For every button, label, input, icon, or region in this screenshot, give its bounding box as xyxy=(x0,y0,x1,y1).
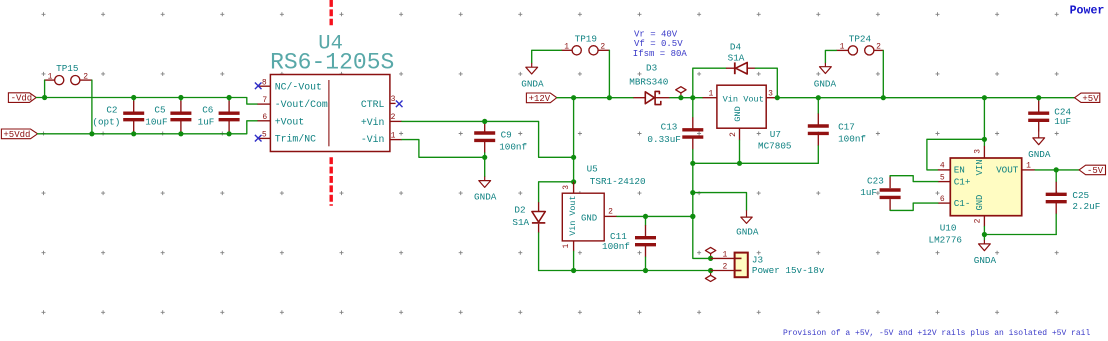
svg-text:GND: GND xyxy=(581,213,597,223)
svg-text:C2: C2 xyxy=(106,104,117,115)
svg-text:GNDA: GNDA xyxy=(1028,149,1051,160)
wire U7 GND to ground rail xyxy=(739,140,741,163)
svg-text:C5: C5 xyxy=(154,104,165,115)
power symbol GNDA below U10 xyxy=(983,235,985,241)
U5 pin 1 xyxy=(573,241,575,251)
J3 pin 2 xyxy=(711,270,735,272)
svg-text:GNDA: GNDA xyxy=(736,227,759,238)
svg-text:100nf: 100nf xyxy=(838,134,866,145)
svg-text:C6: C6 xyxy=(202,104,213,115)
svg-text:8: 8 xyxy=(262,78,267,87)
junction xyxy=(643,214,648,219)
power symbol GNDA below TP24 xyxy=(824,63,826,67)
svg-text:2: 2 xyxy=(391,113,396,122)
svg-text:U7: U7 xyxy=(770,129,781,140)
power symbol GNDA middle xyxy=(746,210,748,217)
wire TP19 pin2 to rail xyxy=(608,50,610,97)
svg-text:U10: U10 xyxy=(940,223,957,234)
svg-text:Power: Power xyxy=(1070,5,1105,18)
svg-text:D3: D3 xyxy=(646,62,657,73)
U4 pin 8 xyxy=(258,85,271,87)
U4 pin 7 xyxy=(258,103,271,105)
svg-text:D2: D2 xyxy=(514,205,525,216)
svg-text:7: 7 xyxy=(262,96,267,105)
junction xyxy=(690,161,695,166)
svg-text:+Vout: +Vout xyxy=(275,116,304,127)
svg-text:3: 3 xyxy=(562,185,571,190)
svg-text:Vf = 0.5V: Vf = 0.5V xyxy=(634,39,683,49)
svg-text:2: 2 xyxy=(722,262,727,271)
svg-text:LM2776: LM2776 xyxy=(929,234,962,245)
svg-text:-Vout/Com: -Vout/Com xyxy=(275,99,328,110)
svg-text:-Vdd: -Vdd xyxy=(11,94,33,104)
svg-text:Vr = 40V: Vr = 40V xyxy=(634,30,678,40)
wire EN loop xyxy=(927,139,985,170)
hierarchical label -5V xyxy=(1079,165,1105,175)
junction xyxy=(690,214,695,219)
power symbol GNDA below TP19 xyxy=(531,63,533,67)
junction xyxy=(131,131,136,136)
U7 pin 3 Vout xyxy=(766,97,777,99)
red dashed divider line xyxy=(330,0,333,206)
wire +12V to rail xyxy=(557,97,574,99)
svg-text:Ifsm = 80A: Ifsm = 80A xyxy=(633,49,688,59)
wire ground vertical to J3 xyxy=(693,163,711,258)
svg-text:J3: J3 xyxy=(752,254,763,265)
bottom rail wire xyxy=(539,270,711,272)
capacitor C24 xyxy=(1038,98,1040,101)
svg-text:5: 5 xyxy=(262,131,267,140)
capacitor C5 xyxy=(180,98,182,101)
U10 pin 1 VOUT xyxy=(1022,169,1035,171)
junction xyxy=(643,268,648,273)
U10 pin 4 EN xyxy=(938,169,950,171)
svg-text:EN: EN xyxy=(954,165,965,176)
no-connect pin 5 xyxy=(255,135,262,142)
wire +12V vertical to U5 net xyxy=(573,98,575,182)
svg-text:6: 6 xyxy=(262,113,267,122)
svg-text:GND: GND xyxy=(733,106,743,121)
svg-text:0.33uF: 0.33uF xyxy=(647,134,680,145)
U5 pin 3 xyxy=(573,182,575,193)
junction xyxy=(775,95,780,100)
wire TP15 pin1 to -Vdd xyxy=(44,80,46,97)
J3 connector body xyxy=(735,253,748,278)
svg-text:GNDA: GNDA xyxy=(521,78,544,89)
svg-text:3: 3 xyxy=(768,90,773,99)
svg-text:C9: C9 xyxy=(501,129,512,140)
wire U5 GND line xyxy=(617,215,693,217)
hierarchical label +5Vdd xyxy=(1,129,37,139)
junction xyxy=(227,131,232,136)
junction xyxy=(1036,95,1041,100)
svg-text:+Vin: +Vin xyxy=(361,117,385,128)
U4 pin 2 xyxy=(390,120,402,122)
wire +5Vdd rail xyxy=(38,121,258,134)
wire D3 cathode to U7 xyxy=(670,97,703,99)
junction xyxy=(227,95,232,100)
capacitor C9 xyxy=(484,121,486,131)
svg-text:GNDA: GNDA xyxy=(814,78,837,89)
capacitor C11 xyxy=(645,216,647,225)
junction xyxy=(1054,167,1059,172)
junction xyxy=(982,137,987,142)
svg-text:VOUT: VOUT xyxy=(996,165,1019,176)
svg-text:CTRL: CTRL xyxy=(361,99,385,110)
U10 pin 5 C1+ xyxy=(938,181,950,183)
junction xyxy=(178,95,183,100)
junction xyxy=(678,95,683,100)
junction xyxy=(737,161,742,166)
svg-text:Vin Vout: Vin Vout xyxy=(568,195,578,235)
U10 pin 3 VIN xyxy=(983,146,985,158)
wire GNDA branch middle xyxy=(693,193,747,211)
svg-text:C17: C17 xyxy=(838,121,855,132)
U4 pin 5 xyxy=(258,137,271,139)
U4 pin 6 xyxy=(258,120,271,122)
svg-text:3: 3 xyxy=(391,95,396,104)
wire main rail +12V segment xyxy=(574,97,634,99)
svg-text:2: 2 xyxy=(973,218,982,223)
wire main rail +5VDD segment xyxy=(777,97,1074,99)
junction xyxy=(89,131,94,136)
wire ground rail middle xyxy=(693,162,819,164)
power symbol GNDA below C24 xyxy=(1038,132,1040,138)
U7 pin 2 GND xyxy=(739,128,741,140)
U4 pin 1 xyxy=(390,139,402,141)
svg-text:GND: GND xyxy=(975,195,985,211)
svg-text:C13: C13 xyxy=(661,121,678,132)
svg-text:100nf: 100nf xyxy=(499,142,527,153)
junction xyxy=(708,256,713,261)
power flag PWR_FLAG on +12V xyxy=(680,93,682,98)
svg-text:C25: C25 xyxy=(1072,190,1089,201)
svg-text:6: 6 xyxy=(940,195,945,204)
junction xyxy=(708,268,713,273)
svg-text:3: 3 xyxy=(973,149,982,154)
svg-text:2: 2 xyxy=(876,43,881,52)
junction xyxy=(571,155,576,160)
power flag on J3 pin1 xyxy=(710,253,712,258)
svg-text:2.2uF: 2.2uF xyxy=(1072,201,1100,212)
hierarchical label +5V xyxy=(1075,93,1100,102)
svg-text:Trim/NC: Trim/NC xyxy=(275,134,316,145)
svg-text:4: 4 xyxy=(940,162,945,171)
wire U10 GND bottom xyxy=(983,227,985,235)
junction xyxy=(482,155,487,160)
svg-text:1: 1 xyxy=(391,131,396,140)
junction xyxy=(982,232,987,237)
svg-text:1uF: 1uF xyxy=(860,187,877,198)
svg-text:C23: C23 xyxy=(867,176,884,187)
svg-text:Power 15v-18v: Power 15v-18v xyxy=(752,265,825,276)
svg-text:C1+: C1+ xyxy=(954,176,971,187)
junction xyxy=(982,95,987,100)
junction xyxy=(690,95,695,100)
power symbol GNDA below C9 xyxy=(484,177,486,181)
svg-text:5: 5 xyxy=(940,173,945,182)
svg-text:TP24: TP24 xyxy=(849,33,872,44)
svg-text:C1-: C1- xyxy=(954,198,971,209)
wire -Vdd rail xyxy=(36,98,257,105)
svg-text:2: 2 xyxy=(83,72,88,81)
junction xyxy=(607,95,612,100)
svg-text:+5V: +5V xyxy=(1082,94,1099,104)
junction xyxy=(178,131,183,136)
svg-text:+5Vdd: +5Vdd xyxy=(3,130,30,140)
svg-text:-5V: -5V xyxy=(1087,166,1104,176)
U4 pin 3 CTRL xyxy=(390,102,396,104)
U10 pin 6 C1- xyxy=(938,202,950,204)
svg-text:2: 2 xyxy=(608,208,613,217)
svg-text:(opt): (opt) xyxy=(92,116,120,127)
capacitor C13 xyxy=(692,98,694,118)
junction xyxy=(482,119,487,124)
wire D2 branch xyxy=(539,182,574,202)
svg-text:2: 2 xyxy=(600,42,605,51)
svg-text:100nf: 100nf xyxy=(602,241,630,252)
wire U4 +Vin to +12V net xyxy=(402,121,574,157)
wire C23 to C1- xyxy=(890,203,938,210)
hierarchical label -Vdd xyxy=(8,93,36,103)
U10 pin 2 GND xyxy=(983,216,985,227)
svg-text:NC/-Vout: NC/-Vout xyxy=(275,81,322,92)
capacitor C17 xyxy=(817,98,819,114)
wire rail to U10 VIN xyxy=(983,98,985,146)
svg-text:RS6-1205S: RS6-1205S xyxy=(270,49,394,75)
junction xyxy=(131,95,136,100)
svg-text:1: 1 xyxy=(1026,162,1031,171)
U5 pin 2 GND xyxy=(604,215,617,217)
capacitor C6 xyxy=(228,98,230,101)
wire D4 bypass branch xyxy=(693,68,726,98)
junction xyxy=(571,95,576,100)
wire D4 to U7 output xyxy=(755,68,777,98)
U7 pin 1 Vin xyxy=(703,97,717,99)
svg-text:+12V: +12V xyxy=(529,94,551,104)
junction xyxy=(690,190,695,195)
svg-text:TSR1-24120: TSR1-24120 xyxy=(590,176,646,187)
J3 pin 1 xyxy=(711,257,735,259)
svg-text:MBRS340: MBRS340 xyxy=(629,76,668,87)
svg-text:1uF: 1uF xyxy=(1054,116,1071,127)
svg-text:TP15: TP15 xyxy=(56,63,78,74)
svg-text:1: 1 xyxy=(722,250,727,259)
svg-text:GNDA: GNDA xyxy=(974,255,997,266)
wire TP19 pin1 to GNDA xyxy=(532,50,562,63)
no-connect pin 3 xyxy=(396,101,403,108)
junction xyxy=(881,95,886,100)
svg-text:S1A: S1A xyxy=(728,52,745,63)
wire TP15 pin2 to +5Vdd xyxy=(91,80,93,134)
junction xyxy=(690,214,695,219)
power flag on J3 pin2 xyxy=(710,271,712,276)
wire U5 pin1 to bottom rail xyxy=(573,251,575,270)
wire U4 -Vin to C9 xyxy=(402,140,485,158)
svg-text:GNDA: GNDA xyxy=(474,191,497,202)
wire VOUT to -5V xyxy=(1035,169,1079,171)
svg-text:-Vin: -Vin xyxy=(361,134,385,145)
svg-text:VIN: VIN xyxy=(975,159,985,175)
svg-text:2: 2 xyxy=(729,132,738,137)
IC U7 MC7805 xyxy=(717,85,766,128)
svg-text:D4: D4 xyxy=(730,41,742,52)
junction xyxy=(42,95,47,100)
svg-text:1: 1 xyxy=(562,244,571,249)
wire TP24 pin2 to rail xyxy=(882,50,884,97)
svg-text:1uF: 1uF xyxy=(198,116,215,127)
svg-text:U5: U5 xyxy=(587,163,598,174)
junction xyxy=(571,268,576,273)
wire C23 to C1+ xyxy=(890,176,938,182)
capacitor C2 xyxy=(133,98,135,101)
power label +12V xyxy=(526,93,556,103)
wire TP24 pin1 to GNDA xyxy=(825,50,836,63)
no-connect pin 8 xyxy=(255,83,262,90)
wire C9 to GNDA xyxy=(484,157,486,176)
wire D2 anode to bottom rail xyxy=(538,233,540,271)
svg-text:10uF: 10uF xyxy=(145,116,167,127)
capacitor C25 xyxy=(1055,170,1057,182)
svg-text:Vin Vout: Vin Vout xyxy=(723,94,764,104)
svg-text:TP19: TP19 xyxy=(575,33,597,44)
junction xyxy=(571,179,576,184)
svg-text:MC7805: MC7805 xyxy=(758,141,791,152)
svg-text:S1A: S1A xyxy=(512,217,529,228)
junction xyxy=(816,95,821,100)
svg-text:1: 1 xyxy=(708,90,713,99)
svg-text:Provision of a +5V, -5V and +1: Provision of a +5V, -5V and +12V rails p… xyxy=(783,329,1090,338)
